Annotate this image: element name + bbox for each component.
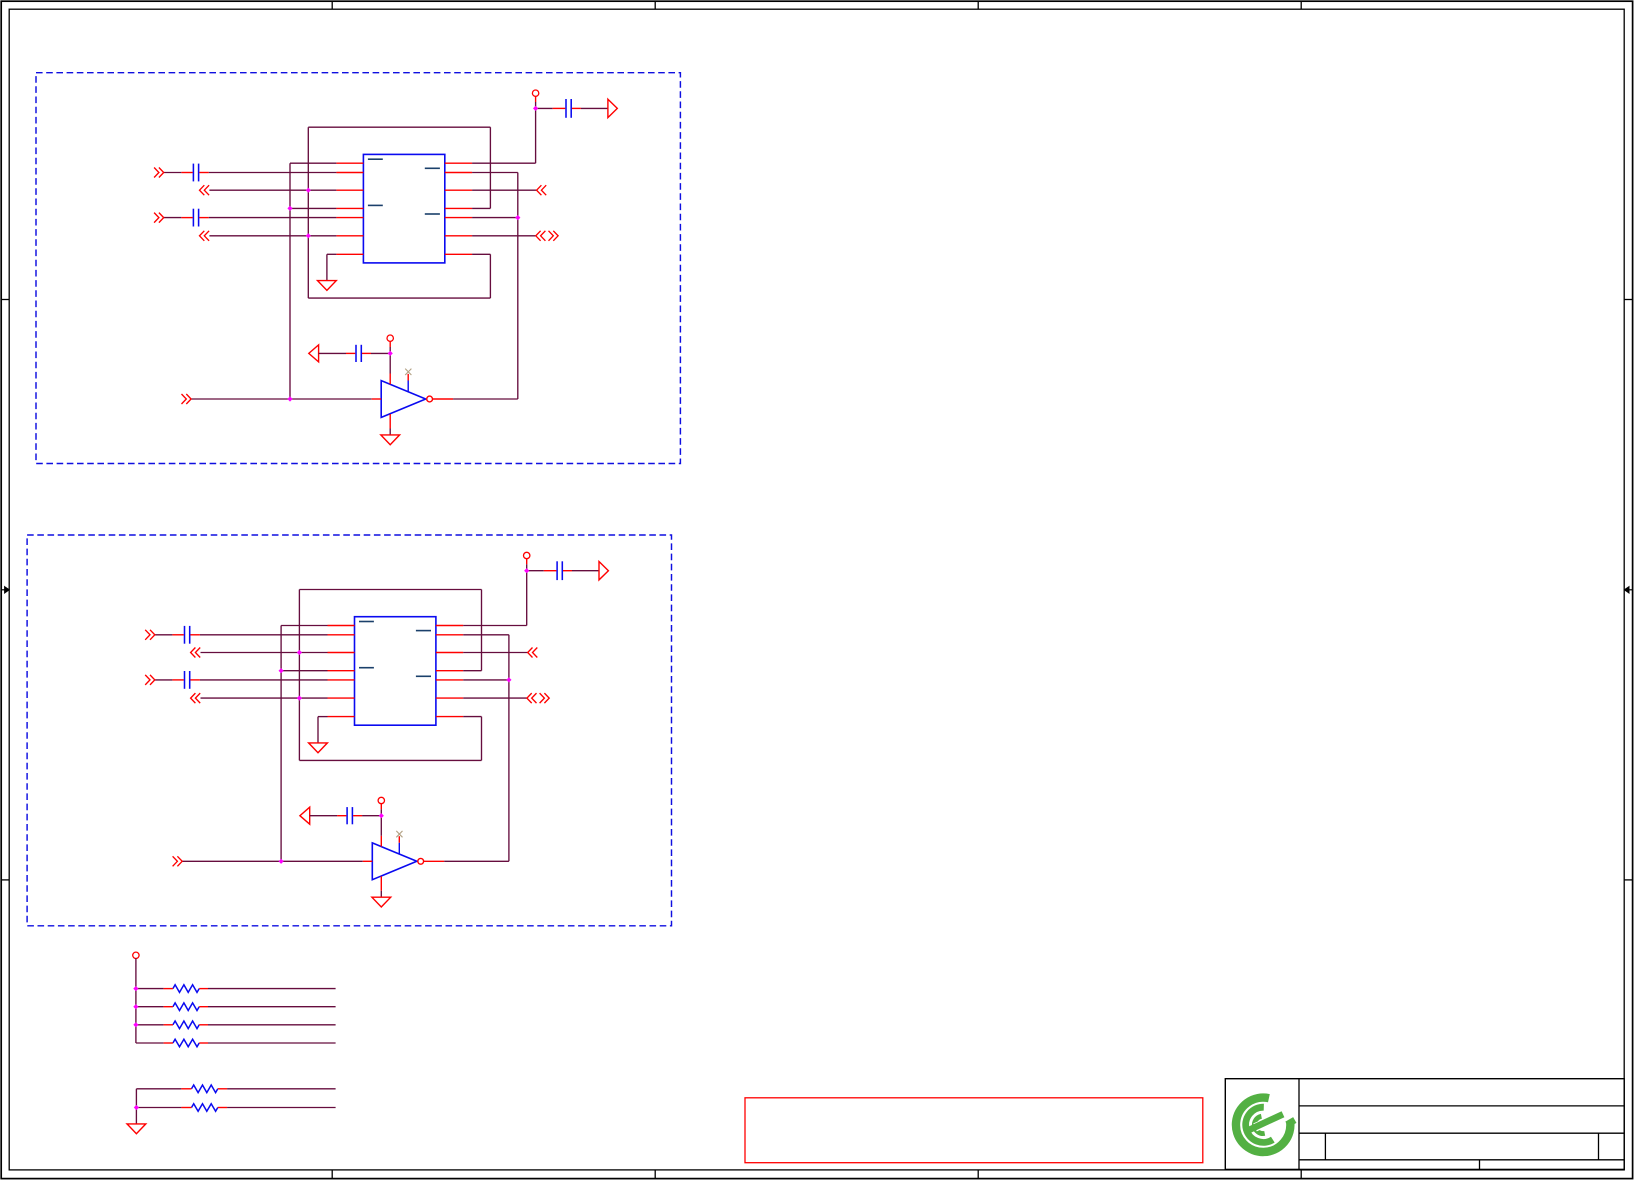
input port IN1 A xyxy=(154,168,164,178)
wire xyxy=(136,1042,164,1044)
title block xyxy=(1225,1079,1624,1170)
wire xyxy=(208,1024,336,1026)
company logo xyxy=(1236,1098,1295,1152)
capacitor CA4 xyxy=(346,345,371,362)
wire xyxy=(526,564,528,570)
input port IN2 B xyxy=(145,675,155,685)
input port INV A xyxy=(182,394,192,404)
node xyxy=(133,1022,138,1027)
wire xyxy=(536,107,553,109)
wire xyxy=(472,189,536,191)
wire xyxy=(209,189,336,191)
output port Ba xyxy=(191,648,201,658)
wire xyxy=(307,127,309,298)
wire xyxy=(535,102,537,108)
wire xyxy=(191,398,372,400)
op-amp UA2 xyxy=(372,374,453,429)
capacitor CB3 xyxy=(544,561,572,580)
node xyxy=(134,1105,139,1110)
wire xyxy=(136,1088,181,1090)
wire xyxy=(362,815,381,817)
wire xyxy=(463,679,509,681)
wire xyxy=(326,254,328,280)
node xyxy=(287,396,292,401)
input port INV B xyxy=(173,856,183,866)
node xyxy=(279,859,284,864)
wire xyxy=(380,816,382,836)
port FB B xyxy=(300,807,310,824)
wire xyxy=(463,716,481,718)
wire xyxy=(444,860,509,862)
wire xyxy=(481,717,483,761)
resistor R2 xyxy=(164,1003,208,1011)
resistor R4 xyxy=(164,1039,208,1047)
capacitor CA2 xyxy=(181,209,209,227)
wire xyxy=(136,1107,181,1109)
wire xyxy=(581,107,608,109)
wire xyxy=(209,235,336,237)
wire xyxy=(164,217,182,219)
input port IN1 B xyxy=(145,630,155,640)
wire xyxy=(327,253,337,255)
wire xyxy=(508,635,510,862)
wire xyxy=(281,625,327,627)
ground xyxy=(372,897,391,907)
terminal B2 xyxy=(378,797,384,809)
wire xyxy=(380,891,382,897)
node xyxy=(524,568,529,573)
wire xyxy=(290,207,336,209)
wire xyxy=(463,625,527,627)
node xyxy=(306,233,311,238)
node xyxy=(515,215,520,220)
analog switch UA1 xyxy=(336,154,472,263)
capacitor CB4 xyxy=(337,807,362,824)
capacitor CB2 xyxy=(172,671,200,689)
wire xyxy=(371,352,390,354)
wire xyxy=(209,172,337,174)
node xyxy=(533,106,538,111)
input port IN2 A xyxy=(154,213,164,223)
wire xyxy=(298,590,300,761)
wire xyxy=(526,571,528,626)
no-connect xyxy=(405,369,411,375)
wire xyxy=(308,297,490,299)
wire xyxy=(135,958,137,1043)
wire xyxy=(281,670,327,672)
node xyxy=(306,188,311,193)
resistor R6 xyxy=(181,1104,227,1112)
wire xyxy=(453,398,518,400)
node xyxy=(297,696,302,701)
wire xyxy=(200,634,328,636)
capacitor CA1 xyxy=(181,164,209,182)
output port Ab xyxy=(200,231,210,241)
resistor R1 xyxy=(164,985,208,993)
resistor R5 xyxy=(181,1085,227,1093)
wire xyxy=(317,717,319,743)
wire xyxy=(280,626,282,862)
wire xyxy=(135,1089,137,1124)
wire xyxy=(389,353,391,373)
wire xyxy=(517,173,519,400)
wire xyxy=(208,988,336,990)
section box B xyxy=(27,535,671,926)
wire xyxy=(481,590,483,671)
op-amp UB2 xyxy=(363,836,444,891)
wire xyxy=(472,172,518,174)
output port Aa xyxy=(200,185,210,195)
wire xyxy=(201,652,328,654)
wire xyxy=(227,1107,336,1109)
ground xyxy=(127,1124,146,1134)
wire xyxy=(319,352,346,354)
no-connect xyxy=(396,831,402,837)
resistor R3 xyxy=(164,1021,208,1029)
wire xyxy=(136,1024,164,1026)
terminal T3 xyxy=(133,952,139,958)
analog switch UB1 xyxy=(328,617,464,726)
output port Bc xyxy=(528,648,538,658)
wire xyxy=(489,127,491,208)
wire xyxy=(201,697,328,699)
terminal A2 xyxy=(387,335,393,347)
ground xyxy=(381,435,400,445)
wire xyxy=(472,235,536,237)
wire xyxy=(389,429,391,435)
node xyxy=(133,1004,138,1009)
node xyxy=(379,813,384,818)
output port Ac xyxy=(537,185,547,195)
bidir port A xyxy=(536,231,558,241)
node xyxy=(279,668,284,673)
wire xyxy=(463,697,527,699)
ground xyxy=(318,281,337,291)
capacitor CB1 xyxy=(172,626,200,644)
node xyxy=(133,986,138,991)
capacitor CA3 xyxy=(553,99,581,118)
wire xyxy=(136,988,164,990)
wire xyxy=(472,207,490,209)
wire xyxy=(380,809,382,815)
wire xyxy=(535,108,537,163)
wire xyxy=(489,254,491,298)
wire xyxy=(463,634,509,636)
wire xyxy=(209,217,337,219)
wire xyxy=(227,1088,336,1090)
wire xyxy=(200,679,328,681)
wire xyxy=(310,815,337,817)
ground xyxy=(309,743,328,753)
wire xyxy=(182,860,363,862)
wire xyxy=(290,162,336,164)
wire xyxy=(155,679,173,681)
wire xyxy=(318,716,328,718)
wire xyxy=(463,652,528,654)
output port Bb xyxy=(191,693,201,703)
wire xyxy=(289,163,291,399)
wire xyxy=(208,1006,336,1008)
wire xyxy=(572,570,599,572)
node xyxy=(297,650,302,655)
terminal A1 xyxy=(532,90,538,102)
section box A xyxy=(36,73,680,464)
port FB A xyxy=(309,345,319,362)
terminal B1 xyxy=(524,552,530,564)
wire xyxy=(155,634,173,636)
wire xyxy=(208,1042,336,1044)
wire xyxy=(389,347,391,353)
node xyxy=(388,351,393,356)
wire xyxy=(527,570,544,572)
wire xyxy=(136,1006,164,1008)
bidir port B xyxy=(527,693,549,703)
node xyxy=(287,206,292,211)
notes box xyxy=(745,1098,1203,1163)
wire xyxy=(164,172,182,174)
wire xyxy=(472,162,535,164)
wire xyxy=(472,253,490,255)
wire xyxy=(472,217,518,219)
wire xyxy=(463,670,481,672)
wire xyxy=(308,126,490,128)
wire xyxy=(299,759,481,761)
output port OUT B xyxy=(599,562,608,580)
node xyxy=(506,677,511,682)
wire xyxy=(299,589,481,591)
output port OUT A xyxy=(608,99,617,117)
